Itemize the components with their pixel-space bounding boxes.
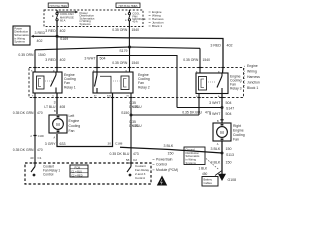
label 0.35 ORN 1540 (left) [18,53,45,57]
svg-text:Left: Left [69,114,75,118]
svg-text:0.35 DK GRN: 0.35 DK GRN [13,148,34,152]
wire 3 WHT 504 relay 2 to vertical drop [97,56,177,108]
svg-text:1 BLK: 1 BLK [199,167,209,171]
splice S169 [56,35,69,41]
svg-text:Powertrain: Powertrain [156,157,173,161]
label Engine Cooling Fan Relay 3 [230,74,242,90]
svg-text:0.35 ORN: 0.35 ORN [112,28,128,32]
svg-text:S169: S169 [60,37,68,41]
PCM driver coolant fan relay 1 control [31,163,37,176]
svg-text:150: 150 [168,152,174,156]
label Engine Cooling Fan Relay 2 [138,73,150,90]
svg-text:473: 473 [133,152,139,156]
label 3 BLK 150 [211,147,232,151]
label 3 WHT 504 [209,101,231,105]
connector C188 on relay 2 wire [108,142,123,146]
connector C190 [30,135,44,138]
svg-text:Module (PCM): Module (PCM) [156,168,178,172]
label 0.35 DK GRN 470 [13,111,43,115]
svg-text:Control: Control [43,173,54,177]
svg-text:408: 408 [60,105,66,109]
relay K2 (engine cooling fan relay 2) [93,72,133,93]
label 0.35 DK BLU 473 (relay 3) [182,111,211,115]
relay pin letters bottom [32,95,220,98]
PCM driver coolant fan relay 2 and 3 control [127,163,133,176]
wire 3 BLK 150 right fan to ground [221,141,223,175]
svg-text:40: 40 [30,156,34,160]
svg-text:504: 504 [226,112,232,116]
svg-text:402: 402 [60,58,66,62]
svg-text:Harness: Harness [247,75,260,79]
svg-text:Right: Right [233,124,241,128]
svg-text:Control: Control [135,176,145,180]
svg-text:LT BLU: LT BLU [44,105,56,109]
svg-text:3 GRY: 3 GRY [45,142,56,146]
header Hot At All Times (left fuse) [48,3,68,8]
svg-text:450: 450 [202,172,208,176]
svg-text:Cables: Cables [204,181,213,185]
svg-text:3 RED: 3 RED [45,29,56,33]
svg-text:HOT AT ALL TIMES: HOT AT ALL TIMES [119,5,138,8]
long wire 3 RED 402 from S169 to relay 3 contact [57,37,223,73]
callout box Ground Distribution Schematics [184,147,205,165]
svg-text:Engine: Engine [233,128,244,132]
label 3 BLK 150 (mid) [164,144,174,156]
svg-text:Systems: Systems [186,161,197,165]
svg-text:402: 402 [60,29,66,33]
svg-text:633: 633 [60,142,66,146]
svg-text:473: 473 [133,124,139,128]
svg-text:3 BLK: 3 BLK [211,147,221,151]
label Powertrain Control Module (PCM) [153,157,179,172]
label 3 BLK 150 (lower) [211,160,232,164]
svg-text:470: 470 [37,111,43,115]
svg-text:3 RED: 3 RED [35,31,46,35]
svg-text:G108: G108 [228,178,237,182]
label 3 RED 402 [45,29,65,33]
label 3 LT BLU 408 [44,100,65,113]
svg-text:Systems: Systems [80,22,92,26]
PCM connector legend box [70,165,88,177]
label 3 RED 402 (right) [210,44,232,48]
svg-text:M: M [220,130,224,135]
svg-text:30: 30 [108,142,112,146]
svg-text:0.35 DK BLU: 0.35 DK BLU [110,152,130,156]
svg-text:Cooling: Cooling [233,133,245,137]
label 0.35 ORN 1540 (right) [183,58,210,62]
wire 0.35 ORN 1540 drop to relay 2 coil [129,47,131,72]
wire 3 LT BLU 408 relay 1 to left fan [56,93,58,114]
svg-text:1540: 1540 [132,28,140,32]
relay K3 (engine cooling fan relay 3) [196,73,228,94]
svg-text:3 WHT: 3 WHT [84,57,96,61]
svg-text:S179: S179 [119,49,127,53]
label 0.35 DK GRN 470 (second) [13,148,43,152]
svg-text:Block 1: Block 1 [152,24,162,28]
label 0.35 DK BLU 473 (PCM) [110,152,139,156]
label 3 WHT 504 (second) [209,112,231,116]
leader from callout to S113 [206,159,219,170]
ground wire 3 BLK 150 horizontal run [120,147,222,153]
svg-text:S113: S113 [226,153,234,157]
svg-text:150: 150 [226,147,232,151]
svg-text:Wiring: Wiring [247,69,257,73]
label 3 WHT 504 [84,57,105,61]
PCM dashed box [25,163,151,184]
splice S147 [221,106,235,111]
header Hot At All Times (right fuse) [116,3,140,8]
svg-text:Fan: Fan [69,129,75,133]
svg-text:Engine: Engine [247,64,258,68]
label 1 BLK 450 [199,167,209,176]
svg-text:Relay 1: Relay 1 [64,85,76,89]
label 3 GRY 633 [45,142,66,146]
callout arrow to Power Distribution (top) [57,11,95,26]
svg-text:150: 150 [226,160,232,164]
svg-text:Junction: Junction [247,80,260,84]
svg-text:3 WHT: 3 WHT [209,101,221,105]
svg-text:S147: S147 [226,107,234,111]
svg-text:Block 1: Block 1 [247,86,258,90]
right engine cooling fan motor [213,123,231,141]
svg-text:60 A: 60 A [60,19,66,23]
svg-text:473: 473 [133,105,139,109]
label Engine Cooling Fan Relay 1 [64,73,76,90]
svg-text:C2 = RED: C2 = RED [71,174,83,177]
left engine cooling fan motor [49,115,67,133]
svg-text:Cooling: Cooling [69,124,81,128]
svg-text:504: 504 [100,57,106,61]
label 0.35 ORN 1540 (top) [112,28,139,32]
svg-text:Relay 3: Relay 3 [230,86,242,90]
svg-text:40 A: 40 A [132,20,137,24]
svg-text:Systems: Systems [14,40,25,44]
splice S179 [119,46,131,53]
svg-text:Control: Control [156,163,167,167]
callout box battery cables [202,177,218,187]
svg-text:1540: 1540 [38,53,46,57]
svg-text:Fan: Fan [233,137,239,141]
svg-text:402: 402 [37,39,43,43]
underhood fuse block dashed box [44,10,143,27]
stub wire with arrow to Power Distribution callout [31,31,57,43]
svg-text:Engine: Engine [69,119,80,123]
wire 3 RED 402 from fuse 1 down to relay 1 [56,21,58,72]
wire 3 GRY 633 left fan to relay 2 [57,93,113,147]
connector ticks on junction block top [33,67,224,69]
junction block dashed box (relay row) [29,68,244,98]
svg-text:3: 3 [54,100,56,104]
fuse F1 COOL FAN MAXIFUSE 60A [52,10,74,23]
svg-text:1540: 1540 [203,58,211,62]
PCM pin 58 C2 [126,158,137,162]
svg-text:C188: C188 [115,142,123,146]
callout box Power Distribution Schematics in Wiring Systems [13,26,30,45]
svg-text:M: M [56,122,60,127]
wire 3 WHT 504 relay 3 to right fan [221,94,223,123]
wire 473 branch to relay 3 coil [131,94,222,116]
relay K1 (engine cooling fan relay 1) [33,72,62,93]
wire 0.35 ORN 1540 from fuse 2 down [128,21,130,47]
svg-text:C1 = BLU: C1 = BLU [71,170,82,173]
svg-text:HOT AT ALL TIMES: HOT AT ALL TIMES [50,5,68,8]
svg-text:402: 402 [227,44,233,48]
svg-text:58: 58 [126,158,130,162]
PCM pin 40 C1 [30,156,42,160]
label 0.35 DK BLU 473 [129,101,142,109]
svg-text:Battery: Battery [204,177,213,181]
svg-text:0.35 ORN: 0.35 ORN [183,58,199,62]
label Coolant Fan Relay 1 Control [43,164,60,176]
svg-text:3 WHT: 3 WHT [209,112,221,116]
splice S113 [221,152,234,157]
svg-text:PCM: PCM [75,166,81,169]
svg-text:3 BLK: 3 BLK [211,160,221,164]
wire 0.35 DK BLU 473 relay 2 coil to PCM [130,93,132,163]
svg-text:3 RED: 3 RED [210,44,221,48]
ESD triangle symbol [157,176,167,186]
label 0.35 DK BLU 473 (second) [129,120,142,128]
svg-text:504: 504 [226,101,232,105]
svg-text:Relay 2: Relay 2 [138,85,150,89]
wire 0.35 DK GRN 470 relay 1 coil to PCM [34,93,36,163]
svg-text:C1: C1 [38,156,42,160]
svg-text:C2: C2 [133,158,137,162]
label Coolant Fan Relay 2 and 3 Control [135,164,150,180]
svg-text:0.35 ORN: 0.35 ORN [18,53,34,57]
wire 1540 horizontal run to relay 1 and relay 3 coils [35,47,200,73]
relay pin letters top [31,70,220,73]
svg-text:1540: 1540 [132,61,140,65]
svg-text:C190: C190 [38,135,45,138]
leader line to ground wire [215,171,222,176]
svg-text:0.35 ORN: 0.35 ORN [112,61,128,65]
label 3 RED 402 (second, above relay 1) [45,58,65,62]
svg-text:0.35 DK GRN: 0.35 DK GRN [13,111,34,115]
label Engine Wiring Harness Junction Block (right) [244,64,260,90]
svg-text:3 BLK: 3 BLK [164,144,174,148]
svg-text:3 RED: 3 RED [45,58,56,62]
right fan pin B [217,120,224,123]
label Right Engine Cooling Fan [233,124,245,142]
svg-text:87A: 87A [107,95,111,98]
engine wiring harness junction block label (top) [149,10,164,28]
splice S150 [121,111,132,117]
connector ticks on junction block bottom [33,97,223,99]
label 0.35 ORN 1540 (relay 2) [112,61,139,65]
svg-text:S150: S150 [121,111,129,115]
svg-text:470: 470 [37,148,43,152]
ground G108 [218,174,236,182]
fuse F2 COOL FAN MAXIFUSE 40A [125,10,146,24]
label Left Engine Cooling Fan [69,114,81,133]
svg-text:0.35 DK BLU: 0.35 DK BLU [182,111,202,115]
